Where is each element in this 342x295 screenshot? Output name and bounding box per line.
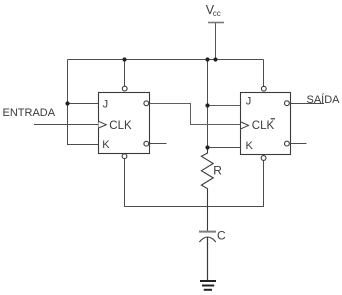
power Vcc bar symbol xyxy=(208,22,224,24)
node junction J input of U2 xyxy=(205,103,209,107)
node junction top of R / K input of U2 xyxy=(205,145,209,149)
node junction at J input of U1 xyxy=(65,101,69,105)
wire left vertical to J and K inputs xyxy=(68,60,99,145)
wire ENTRADA to CLK of U1 xyxy=(34,124,99,126)
wire preset drop to U1 xyxy=(124,60,126,87)
power Vcc label xyxy=(206,3,221,18)
wire J input of U2 xyxy=(208,105,242,107)
ground xyxy=(200,281,216,290)
flip-flop U2 box xyxy=(241,93,291,155)
svg-text:CLK: CLK xyxy=(109,120,132,132)
wire Vcc drop to top bus xyxy=(215,23,217,60)
wire Q of U1 to CLK of U2 xyxy=(150,104,242,125)
pin preset bubble U1 xyxy=(122,86,127,91)
resistor R xyxy=(201,148,213,231)
wire K input of U2 xyxy=(208,147,242,149)
capacitor C top plate xyxy=(199,231,216,233)
capacitor C bottom plate xyxy=(199,237,215,242)
node junction middle vertical on bus xyxy=(205,57,209,61)
pin Qbar bubble U1 xyxy=(144,141,149,146)
svg-text:J: J xyxy=(103,99,109,111)
wire J input of U1 xyxy=(68,103,99,105)
pin clear bubble U1 xyxy=(122,154,127,159)
node junction preset drop U1 on bus xyxy=(122,57,126,61)
svg-text:C: C xyxy=(217,228,226,242)
node junction Vcc drop on bus xyxy=(213,57,217,61)
svg-text:K: K xyxy=(246,140,254,152)
svg-text:CLK: CLK xyxy=(252,120,275,132)
svg-text:cc: cc xyxy=(213,9,221,18)
wire K output stub of U2 xyxy=(291,143,307,145)
svg-text:SAÍDA: SAÍDA xyxy=(307,93,341,106)
svg-text:ENTRADA: ENTRADA xyxy=(3,107,56,119)
pin preset bubble U2 xyxy=(261,86,266,91)
wire top bus xyxy=(68,59,264,61)
wire K output stub of U1 xyxy=(150,143,167,145)
svg-text:R: R xyxy=(213,164,222,178)
pin clear bubble U2 xyxy=(261,156,266,161)
pin Q bubble U2 xyxy=(285,101,290,106)
flip-flop U1 box xyxy=(99,93,150,154)
wire capacitor to ground xyxy=(207,237,209,280)
wire middle vertical Vcc to R xyxy=(207,60,209,148)
wire preset drop to U2 xyxy=(263,60,265,87)
wire clear bus U1 to U2 xyxy=(125,159,264,207)
pin Q bubble U1 xyxy=(144,101,149,106)
pin Qbar bubble U2 xyxy=(285,141,290,146)
wire SAIDA output xyxy=(291,103,325,105)
svg-text:K: K xyxy=(102,139,110,151)
svg-text:J: J xyxy=(246,96,252,108)
